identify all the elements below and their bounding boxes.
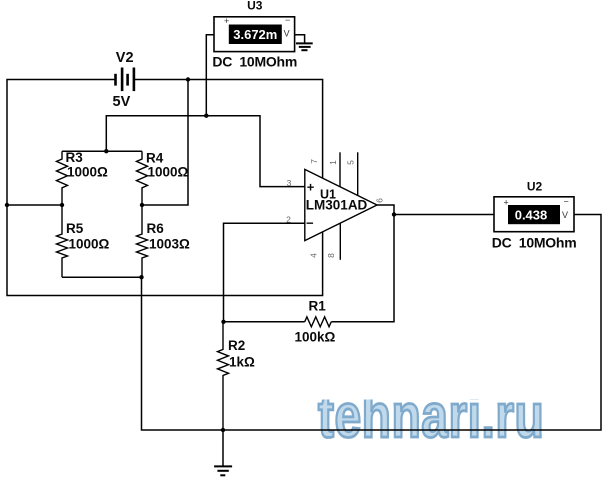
svg-text:5V: 5V bbox=[113, 94, 131, 110]
wire: bridge bottom node down, bottom rail, right rail up to U2 right terminal bbox=[142, 215, 602, 431]
svg-text:1000Ω: 1000Ω bbox=[67, 165, 108, 180]
resistor R1 100kΩ bbox=[295, 299, 336, 345]
wire: feedback node to R1 left lead bbox=[224, 321, 305, 323]
wire: output node down to R1 right lead bbox=[331, 215, 394, 322]
svg-text:100kΩ: 100kΩ bbox=[295, 330, 336, 345]
svg-text:3.672m: 3.672m bbox=[233, 27, 277, 42]
wire: op-amp output pin 6 to output node bbox=[377, 205, 394, 215]
resistor R2 1kΩ bbox=[218, 322, 256, 430]
resistor R3 1000Ω bbox=[57, 150, 109, 205]
wire: U3 right terminal to ground stem bbox=[295, 35, 305, 44]
svg-text:+: + bbox=[307, 179, 315, 194]
svg-text:1003Ω: 1003Ω bbox=[149, 237, 190, 252]
wire: from battery wire junction down to bridge right mid node bbox=[142, 80, 188, 206]
junction: bridge right mid node (R4/R6) bbox=[140, 203, 144, 207]
svg-text:1000Ω: 1000Ω bbox=[69, 237, 110, 252]
svg-text:R5: R5 bbox=[66, 221, 84, 236]
svg-text:8: 8 bbox=[326, 253, 336, 258]
svg-text:LM301AD: LM301AD bbox=[306, 198, 368, 213]
svg-text:−: − bbox=[285, 15, 290, 25]
svg-text:5: 5 bbox=[345, 160, 355, 165]
wire: bridge top node up and over to op-amp pin 3 bbox=[106, 116, 304, 187]
resistor R5 1000Ω bbox=[57, 205, 110, 277]
wire: left rail to bridge left mid node bbox=[7, 204, 62, 206]
svg-text:6: 6 bbox=[375, 198, 385, 203]
svg-text:V: V bbox=[562, 210, 568, 220]
svg-text:3: 3 bbox=[287, 178, 292, 188]
svg-text:+: + bbox=[224, 16, 229, 26]
svg-text:V2: V2 bbox=[116, 50, 134, 66]
junction: bridge top node bbox=[104, 149, 108, 153]
svg-text:7: 7 bbox=[309, 159, 319, 164]
svg-text:R6: R6 bbox=[147, 221, 165, 236]
svg-text:R3: R3 bbox=[66, 150, 84, 165]
svg-text:0.438: 0.438 bbox=[515, 207, 548, 222]
svg-text:R4: R4 bbox=[146, 151, 164, 166]
wire: battery positive right to corner, down to op-amp pin 7 bbox=[134, 80, 323, 179]
svg-text:+: + bbox=[504, 198, 509, 208]
svg-text:1000Ω: 1000Ω bbox=[148, 165, 189, 180]
svg-text:−: − bbox=[564, 197, 569, 207]
svg-text:U3: U3 bbox=[247, 0, 263, 13]
wire: output node to U2 left terminal bbox=[394, 214, 494, 216]
svg-text:U2: U2 bbox=[527, 179, 543, 193]
wire: U3 left terminal down to pin-3 net bbox=[206, 35, 214, 116]
wire: op-amp pin 2 left and down to feedback node bbox=[224, 223, 305, 322]
svg-text:V: V bbox=[284, 29, 290, 39]
svg-text:4: 4 bbox=[308, 253, 318, 258]
junction: op-amp output node bbox=[392, 212, 396, 216]
svg-text:R1: R1 bbox=[309, 299, 327, 314]
wire: bridge top connector bbox=[62, 150, 142, 152]
watermark tehnari.ru bbox=[318, 381, 544, 450]
junction: ground node on bottom rail bbox=[221, 428, 225, 432]
junction: bridge bottom node (R5/R6) bbox=[139, 275, 143, 279]
junction: battery wire / bridge feed bbox=[186, 77, 190, 81]
junction: U3 tap on pin-3 net bbox=[204, 114, 208, 118]
wire: bridge bottom connector bbox=[62, 276, 142, 278]
op-amp pin 1 stub bbox=[339, 152, 341, 187]
battery V2 5V bbox=[113, 50, 134, 110]
junction: bridge left mid node (R3/R5) bbox=[60, 203, 64, 207]
op-amp pin 8 stub bbox=[339, 223, 341, 259]
voltmeter U2 bbox=[492, 179, 577, 250]
op-amp U1 LM301AD bbox=[305, 169, 377, 240]
wire: battery negative to left rail, down, along bottom to op-amp pin 4 bbox=[7, 80, 323, 296]
svg-text:DC 10MOhm: DC 10MOhm bbox=[212, 54, 297, 70]
ground at bottom (R2 / bottom rail) bbox=[214, 430, 232, 475]
ground at U3 bbox=[296, 43, 313, 50]
resistor R4 1000Ω bbox=[137, 151, 189, 206]
op-amp pin 5 stub bbox=[357, 152, 359, 195]
junction: feedback node (R1/R2/pin2) bbox=[221, 320, 225, 324]
junction: left rail mid bbox=[5, 203, 9, 207]
svg-text:R2: R2 bbox=[228, 338, 245, 353]
resistor R6 1003Ω bbox=[137, 205, 191, 277]
svg-text:2: 2 bbox=[286, 214, 291, 224]
svg-text:DC 10MOhm: DC 10MOhm bbox=[492, 234, 577, 250]
svg-text:1: 1 bbox=[328, 160, 338, 165]
svg-text:−: − bbox=[306, 215, 314, 230]
svg-text:1kΩ: 1kΩ bbox=[229, 355, 255, 370]
voltmeter U3 bbox=[212, 0, 297, 70]
